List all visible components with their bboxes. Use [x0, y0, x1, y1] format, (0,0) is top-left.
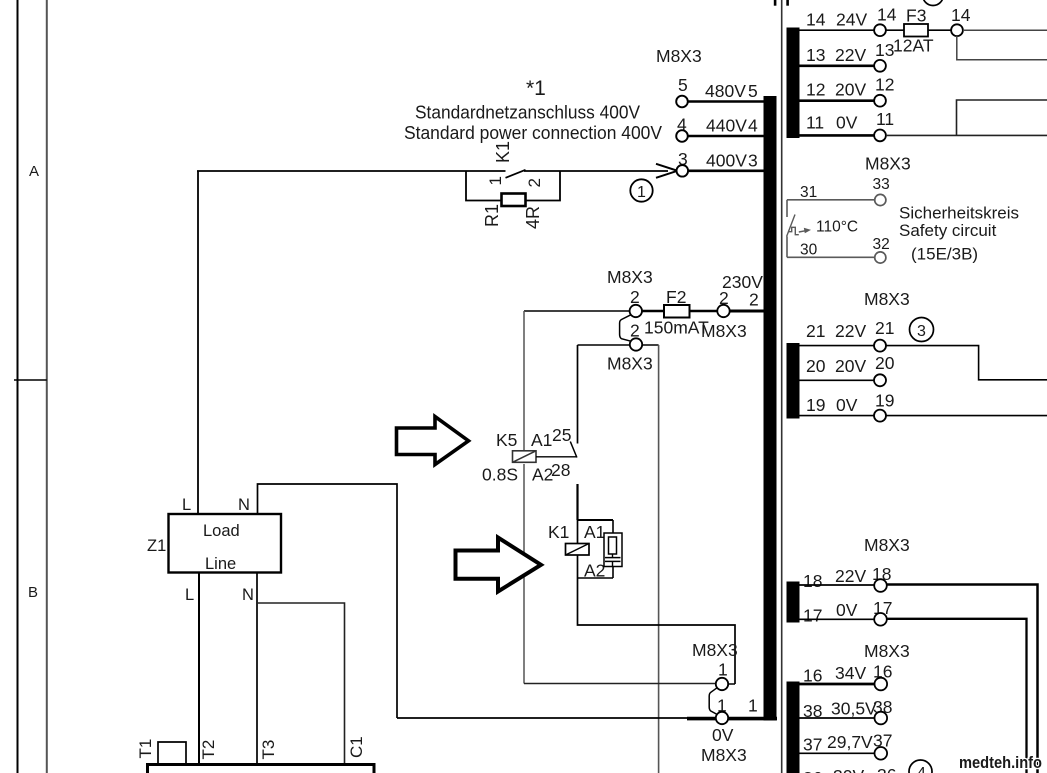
- svg-text:36: 36: [877, 765, 896, 773]
- svg-text:4: 4: [748, 116, 758, 136]
- wire: tap 21 to terminal: [799, 345, 874, 347]
- svg-text:12: 12: [806, 80, 825, 100]
- svg-text:14: 14: [951, 5, 971, 25]
- transformer T1 secondary winding bar segment 4: [787, 682, 800, 773]
- sheet-reference circled 2 (cut off at top): [923, 0, 944, 6]
- wire: 24V drop and out: [957, 36, 1047, 60]
- svg-text:0.8S: 0.8S: [482, 465, 518, 485]
- svg-text:A1: A1: [584, 522, 605, 542]
- svg-text:K1: K1: [493, 141, 513, 163]
- terminal 38 circle: [875, 712, 888, 725]
- svg-text:M8X3: M8X3: [656, 46, 702, 66]
- svg-text:13: 13: [875, 40, 894, 60]
- wire: terminal 14 to fuse F3: [886, 29, 904, 31]
- svg-text:19: 19: [806, 395, 825, 415]
- terminal 18 circle: [874, 579, 887, 592]
- wire: 0V out to sheet edge: [886, 415, 1047, 417]
- svg-text:20V: 20V: [835, 356, 866, 376]
- transformer T1 label (cut off at top): [774, 0, 789, 6]
- frame: left border black line: [17, 0, 19, 773]
- svg-text:0V: 0V: [712, 725, 734, 745]
- terminal 2 circle (lower): [630, 338, 642, 350]
- svg-text:B: B: [28, 584, 38, 601]
- wire: K5 coil feed (gray) lower: [523, 464, 525, 684]
- continuation arrow 2: [456, 538, 542, 592]
- svg-text:M8X3: M8X3: [607, 267, 653, 287]
- svg-text:F2: F2: [666, 287, 686, 307]
- svg-text:1: 1: [486, 176, 505, 185]
- wire: below K1 to terminal 1 riser: [578, 578, 736, 684]
- svg-text:Sicherheitskreis: Sicherheitskreis: [899, 204, 1019, 223]
- svg-text:0V: 0V: [836, 395, 858, 415]
- svg-text:31: 31: [800, 184, 817, 201]
- svg-text:12AT: 12AT: [893, 36, 934, 56]
- wire: tap 17 to terminal: [799, 618, 874, 620]
- wire: tap 38 to terminal: [799, 717, 874, 719]
- wire: jog between pin 1 terminals: [709, 688, 717, 715]
- thermal switch wire 30: [787, 256, 875, 258]
- wire: L down to Z1: [197, 171, 199, 514]
- svg-text:110°C: 110°C: [816, 219, 858, 236]
- svg-text:Safety circuit: Safety circuit: [899, 221, 997, 240]
- svg-text:21: 21: [806, 321, 825, 341]
- relay K1 branch box top: [577, 519, 613, 521]
- wire: lower 2 to K5 contact: [578, 344, 631, 346]
- wire: 24V out to sheet edge: [963, 29, 1047, 31]
- wire: 0V out thick, down sheet edge: [887, 619, 1027, 773]
- svg-text:17: 17: [803, 606, 822, 626]
- terminal 19 circle: [874, 410, 886, 422]
- wire: tap 19 to terminal: [799, 415, 874, 417]
- wire: terminal 2 to fuse F2: [642, 310, 664, 312]
- RC suppressor capacitor: [605, 557, 621, 559]
- terminal 4 circle: [676, 130, 688, 142]
- svg-text:Line: Line: [205, 555, 236, 573]
- wire: jog between pin 2 terminals: [620, 315, 631, 341]
- svg-text:20: 20: [875, 353, 895, 373]
- svg-text:F3: F3: [906, 6, 926, 26]
- svg-text:N: N: [238, 496, 250, 514]
- svg-text:M8X3: M8X3: [607, 354, 653, 374]
- timer relay K5 coil: [513, 451, 537, 463]
- svg-text:19: 19: [875, 391, 894, 411]
- svg-text:5: 5: [748, 81, 758, 101]
- svg-text:2: 2: [525, 178, 544, 187]
- svg-text:0V: 0V: [836, 113, 858, 133]
- terminal 13 circle: [874, 60, 886, 72]
- svg-text:1: 1: [748, 696, 758, 716]
- frame: left border gray line: [46, 0, 48, 773]
- svg-text:22V: 22V: [835, 45, 866, 65]
- svg-text:M8X3: M8X3: [864, 641, 910, 661]
- terminal 2 circle (230V): [717, 305, 729, 317]
- svg-text:36: 36: [803, 768, 822, 773]
- svg-text:18: 18: [803, 571, 822, 591]
- thermal switch upper lead: [786, 200, 788, 217]
- svg-text:(15E/3B): (15E/3B): [911, 245, 978, 264]
- thermal switch blade: [787, 215, 795, 237]
- wire: branch to C1: [257, 603, 345, 765]
- thermal switch lower lead: [786, 237, 788, 258]
- wire: tap 20 to terminal: [799, 379, 874, 381]
- fuse F3 body: [904, 24, 928, 37]
- wire: 0V rise and out: [957, 100, 1047, 135]
- svg-text:5: 5: [678, 75, 688, 95]
- svg-text:21: 21: [875, 318, 894, 338]
- continuation arrow 1: [397, 417, 469, 465]
- svg-text:T1: T1: [136, 739, 155, 759]
- wire: terminal 4 to winding: [687, 135, 764, 138]
- svg-text:12: 12: [875, 75, 894, 95]
- svg-text:11: 11: [806, 113, 824, 133]
- wire: 22V out thick, down sheet edge: [887, 585, 1038, 773]
- wire: tap 12 to terminal: [799, 99, 874, 102]
- svg-text:A1: A1: [531, 430, 552, 450]
- svg-text:14: 14: [877, 5, 897, 25]
- svg-text:16: 16: [803, 666, 822, 686]
- terminal 20 circle: [874, 374, 886, 386]
- wire: terminal 3 to winding: [688, 170, 764, 173]
- transformer T1 primary winding bar: [764, 96, 777, 721]
- svg-text:30: 30: [800, 242, 818, 259]
- contact K5 blade: [570, 442, 577, 458]
- svg-text:29,7V: 29,7V: [827, 732, 873, 752]
- svg-text:30,5V: 30,5V: [831, 699, 877, 719]
- svg-text:Load: Load: [203, 522, 240, 540]
- wire: mains L horizontal: [197, 170, 506, 172]
- wire: N below Z1 to T3: [256, 573, 258, 765]
- terminal 37 circle: [875, 747, 888, 760]
- terminal 16 circle: [875, 678, 888, 691]
- svg-text:400V: 400V: [706, 150, 747, 170]
- svg-text:Standardnetzanschluss 400V: Standardnetzanschluss 400V: [415, 102, 641, 123]
- svg-text:Standard power connection 400: Standard power connection 400V: [404, 122, 663, 143]
- circled wire number 3: [910, 318, 934, 342]
- terminal 5 circle: [676, 96, 688, 108]
- wire: terminal 1 to riser: [728, 683, 735, 685]
- svg-text:M8X3: M8X3: [701, 745, 747, 765]
- svg-text:20: 20: [806, 356, 826, 376]
- svg-text:K5: K5: [496, 430, 517, 450]
- wire: 0V line thin: [397, 717, 687, 719]
- wire: K1 coil vertical: [577, 520, 579, 578]
- svg-text:A: A: [29, 163, 39, 180]
- wire: lower 2 to right branch: [642, 344, 658, 346]
- wire: tap 16 to terminal: [799, 683, 874, 686]
- transformer T1 secondary winding bar segment 2: [787, 343, 800, 419]
- wire: long gray drop to sheet bottom: [658, 345, 660, 773]
- fuse F2 body: [664, 305, 690, 318]
- svg-text:4: 4: [917, 765, 926, 773]
- link coil to contact: [536, 456, 577, 458]
- wire: tap 14 to terminal: [799, 29, 874, 31]
- wire: fuse F2 to terminal 2 (230V): [690, 310, 718, 312]
- filter Z1 box: [169, 514, 282, 573]
- svg-text:150mAT: 150mAT: [644, 318, 709, 338]
- svg-text:37: 37: [803, 735, 822, 755]
- circled wire number 1: [630, 179, 652, 201]
- svg-text:medteh.info: medteh.info: [959, 754, 1042, 772]
- svg-text:11: 11: [876, 109, 894, 129]
- wire: terminal 5 to winding: [687, 100, 764, 103]
- wire: to M8X3 pin 2 (fuse feed): [524, 310, 630, 312]
- svg-text:24V: 24V: [836, 10, 867, 30]
- svg-text:T3: T3: [259, 740, 278, 760]
- wire: tap 11 to terminal: [799, 134, 874, 137]
- wire: L below Z1 to T2: [198, 573, 200, 765]
- svg-text:2: 2: [749, 290, 759, 310]
- wire: tap 18 to terminal: [799, 584, 874, 586]
- wire: 22V out stepped to sheet edge: [886, 346, 1047, 380]
- svg-text:L: L: [182, 496, 191, 514]
- terminal 11 circle: [874, 130, 886, 142]
- wire: tap 37 to terminal: [799, 752, 874, 754]
- svg-text:34V: 34V: [835, 663, 866, 683]
- transformer T1 primary stub: [158, 742, 186, 765]
- svg-text:M8X3: M8X3: [865, 154, 911, 174]
- arrowhead into terminal 3: [656, 164, 678, 178]
- svg-text:0V: 0V: [836, 600, 858, 620]
- wire: 0V line thick to winding: [687, 717, 777, 721]
- svg-text:M8X3: M8X3: [692, 640, 738, 660]
- svg-text:A2: A2: [584, 561, 605, 581]
- wire: K5 contact upper: [577, 345, 579, 444]
- svg-text:20V: 20V: [835, 80, 866, 100]
- wire: N from Z1 up and right: [258, 484, 398, 718]
- terminal 12 circle: [874, 95, 886, 107]
- wire: K5 contact lower: [576, 484, 578, 520]
- svg-text:32: 32: [873, 236, 890, 253]
- terminal 1 circle (upper): [716, 678, 728, 690]
- wire: after contact to terminal 3: [524, 170, 668, 172]
- svg-text:480V: 480V: [705, 81, 746, 101]
- RC suppressor outer box: [604, 533, 622, 567]
- circled wire number 4 (cut off): [909, 760, 932, 773]
- svg-text:Z1: Z1: [147, 537, 166, 555]
- terminal 33 circle: [875, 194, 886, 205]
- wire: K5 coil feed (gray) upper: [523, 311, 525, 451]
- svg-text:440V: 440V: [706, 116, 747, 136]
- terminal 1 circle (lower): [716, 712, 728, 724]
- terminal 14 circle: [874, 24, 886, 36]
- svg-text:C1: C1: [347, 736, 366, 758]
- relay K1 branch box bottom: [577, 577, 613, 579]
- wire: tap 13 to terminal: [799, 65, 874, 68]
- transformer T1 secondary winding bar segment 1: [787, 28, 800, 139]
- contact K1 blade: [506, 170, 526, 178]
- wire: 0V out to sheet edge: [886, 134, 1047, 136]
- svg-text:M8X3: M8X3: [864, 289, 910, 309]
- svg-text:4R: 4R: [523, 206, 543, 229]
- wire: fuse F3 to terminal 14b: [928, 29, 951, 31]
- thermal actuator symbol: [789, 227, 799, 234]
- wire: bypass branch left drop: [466, 171, 502, 201]
- wire: K5 branch to terminal 1: [524, 683, 716, 685]
- svg-text:*1: *1: [526, 77, 546, 100]
- svg-text:13: 13: [806, 45, 825, 65]
- resistor R1 body: [502, 194, 526, 207]
- svg-text:22V: 22V: [835, 566, 866, 586]
- terminal 17 circle: [874, 613, 887, 626]
- terminal 14b circle: [951, 24, 963, 36]
- svg-text:M8X3: M8X3: [864, 535, 910, 555]
- relay K1 branch box right: [612, 520, 614, 578]
- svg-text:R1: R1: [482, 204, 502, 227]
- terminal 3 circle: [677, 165, 689, 177]
- svg-text:L: L: [185, 586, 194, 604]
- transformer T1 secondary winding bar segment 3: [787, 582, 800, 623]
- terminal 21 circle: [874, 340, 886, 352]
- svg-text:25: 25: [552, 425, 571, 445]
- wire: bypass branch right rise: [526, 171, 561, 201]
- svg-text:22V: 22V: [835, 321, 866, 341]
- transformer core line: [781, 0, 783, 773]
- terminal block box (cut off at bottom): [148, 765, 375, 773]
- svg-text:1: 1: [637, 184, 646, 201]
- RC suppressor resistor: [609, 537, 617, 554]
- thermal switch wire 31: [787, 199, 875, 201]
- svg-text:K1: K1: [548, 522, 569, 542]
- terminal 2 circle (upper): [630, 305, 642, 317]
- svg-text:28: 28: [551, 460, 570, 480]
- svg-text:1: 1: [718, 660, 728, 680]
- svg-text:3: 3: [748, 150, 758, 170]
- terminal 32 circle: [875, 252, 886, 263]
- svg-text:N: N: [242, 586, 254, 604]
- svg-text:M8X3: M8X3: [701, 321, 747, 341]
- svg-text:T2: T2: [199, 740, 218, 760]
- relay K1 coil: [566, 544, 590, 556]
- frame: row divider tick: [14, 379, 47, 381]
- svg-text:3: 3: [917, 323, 926, 340]
- svg-text:33: 33: [873, 176, 890, 193]
- svg-text:30V: 30V: [833, 766, 864, 773]
- svg-text:14: 14: [806, 10, 826, 30]
- wire: terminal 2 to winding 230V tap: [730, 310, 764, 313]
